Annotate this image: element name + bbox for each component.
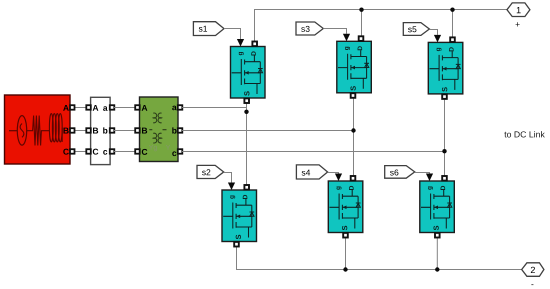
annotation to DC Link — [504, 131, 544, 137]
wire leg phase b (Q2 source to Q5 drain) — [353, 95, 355, 176]
measurement port C in — [86, 149, 91, 154]
MOSFET Q2 (s3, phase b upper) — [337, 41, 372, 93]
From tag s5 — [403, 23, 429, 36]
junction Q6 source — [435, 267, 439, 271]
wire negative DC bus — [237, 246, 522, 269]
Q5 source port — [343, 233, 348, 238]
From tag s1 — [193, 22, 224, 36]
wire source B to measurement B — [70, 130, 91, 132]
three-phase source block — [5, 95, 71, 164]
Q1 source port — [244, 98, 249, 103]
wire positive DC bus — [255, 10, 508, 42]
transformer port b — [178, 128, 183, 133]
output port 1 (positive) — [507, 3, 530, 17]
Q2 drain port — [359, 36, 364, 41]
source port C — [70, 149, 75, 154]
transformer port A — [135, 105, 140, 110]
label plus — [516, 22, 520, 26]
wire s5 to Q3 gate — [429, 30, 437, 35]
MOSFET Q1 (s1, phase a upper) — [231, 47, 266, 99]
wire leg phase a (Q1 source to Q4 drain) — [246, 101, 248, 186]
junction Q5 source — [343, 267, 347, 271]
wire s6 to Q6 gate — [415, 173, 430, 174]
wire Q5 source riser — [345, 237, 347, 269]
wire Q2 drain riser — [361, 10, 363, 37]
wire phase a — [182, 107, 247, 109]
measurement port A in — [86, 105, 91, 110]
junction phase a — [244, 110, 248, 114]
Q3 source port — [442, 94, 447, 99]
source port A — [70, 105, 75, 110]
wire s2 to Q4 gate — [224, 173, 232, 183]
transformer port c — [178, 149, 183, 154]
measurement port a out — [110, 105, 115, 110]
wire s1 to Q1 gate — [224, 29, 241, 40]
wire a to transformer A — [114, 107, 140, 109]
measurement port b out — [110, 128, 115, 133]
wire s4 to Q5 gate — [328, 173, 339, 174]
MOSFET Q3 (s5, phase c upper) — [428, 42, 463, 94]
MOSFET Q4 (s2, phase a lower) — [222, 190, 257, 242]
Q6 drain port — [442, 176, 447, 181]
transformer port a — [178, 105, 183, 110]
measurement port c out — [110, 149, 115, 154]
Q3 drain port — [450, 37, 455, 42]
From tag s2 — [197, 165, 224, 178]
Q6 source port — [435, 233, 440, 238]
MOSFET Q5 (s4, phase b lower) — [328, 181, 363, 233]
three-phase V-I measurement block — [91, 97, 111, 164]
junction Q3 drain — [450, 8, 454, 12]
transformer port B — [135, 128, 140, 133]
junction phase c — [442, 149, 446, 153]
wire s3 to Q2 gate — [323, 29, 346, 34]
wire source C to measurement C — [70, 151, 91, 153]
junction Q2 drain — [359, 8, 363, 12]
source port B — [70, 128, 75, 133]
wire source A to measurement A — [70, 107, 91, 109]
measurement port B in — [86, 128, 91, 133]
output port 2 (negative) — [522, 263, 544, 277]
wire Q3 drain riser — [452, 10, 454, 38]
wire b to transformer B — [114, 130, 140, 132]
label minus — [531, 283, 533, 286]
wire leg phase c (Q3 source to Q6 drain) — [444, 96, 446, 176]
MOSFET Q6 (s6, phase c lower) — [420, 181, 455, 233]
wire phase b — [182, 130, 354, 132]
transformer port C — [135, 149, 140, 154]
Q5 drain port — [351, 176, 356, 181]
junction phase b — [351, 128, 355, 132]
three-phase transformer block — [140, 97, 179, 162]
From tag s6 — [385, 166, 415, 179]
From tag s3 — [296, 22, 323, 35]
Q2 source port — [351, 93, 356, 98]
From tag s4 — [296, 165, 327, 179]
wire Q6 source riser — [436, 237, 438, 269]
Q1 drain port — [252, 42, 257, 47]
wire c to transformer C — [114, 151, 140, 153]
wire phase c — [182, 151, 445, 153]
Q4 drain port — [244, 185, 249, 190]
Q4 source port — [234, 242, 239, 247]
